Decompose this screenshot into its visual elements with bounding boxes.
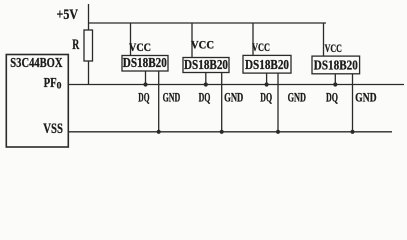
junction dot GND sensor 3 [276,130,280,134]
svg-text:DQ: DQ [326,91,338,105]
wire GND rail from VSS [68,131,392,133]
svg-text:R: R [72,37,79,53]
svg-text:VSS: VSS [43,121,63,137]
svg-text:GND: GND [355,90,377,104]
wire rail to resistor top [88,23,90,30]
wire resistor bottom to DQ bus [88,61,90,85]
svg-text:VCC: VCC [129,42,151,54]
sensor U4 DS18B20 box [243,55,291,73]
wire VCC drop 4 [323,23,325,56]
junction dot GND sensor 4 [350,130,354,134]
wire VCC drop 1 [130,23,132,56]
wire GND pin sensor 2 [221,73,223,132]
sensor U2 DS18B20 box [122,56,168,72]
svg-text:VCC: VCC [325,43,342,55]
svg-text:GND: GND [288,90,306,104]
svg-text:DS18B20: DS18B20 [184,58,228,73]
svg-text:GND: GND [163,90,181,104]
svg-text:DQ: DQ [260,91,272,105]
mcu U1 S3C44BOX box [6,55,68,148]
sensor U3 DS18B20 box [183,58,229,73]
wire DQ pin sensor 2 [205,73,207,85]
wire +5V stub [88,4,90,23]
svg-text:DQ: DQ [199,91,211,105]
wire GND pin sensor 3 [277,73,279,132]
svg-text:DS18B20: DS18B20 [123,56,167,71]
junction dot DQ sensor 1 [143,82,147,86]
junction dot GND sensor 2 [220,130,224,134]
junction dot DQ sensor 2 [204,82,208,86]
wire VCC drop 2 [191,23,193,58]
junction dot DQ sensor 4 [333,82,337,86]
svg-text:0: 0 [57,82,62,92]
resistor R body [84,30,93,61]
wire VCC drop 3 [252,23,254,55]
wire GND pin sensor 1 [158,71,160,132]
wire DQ pin sensor 4 [334,74,336,85]
wire +5V top rail [89,22,327,24]
wire DQ bus from PF0 [68,84,404,86]
junction dot DQ sensor 3 [265,82,269,86]
svg-text:VCC: VCC [191,40,214,52]
svg-text:DS18B20: DS18B20 [314,59,358,74]
svg-text:GND: GND [224,90,243,104]
svg-text:PF: PF [44,75,57,90]
wire DQ pin sensor 1 [145,71,147,85]
sensor U5 DS18B20 box [312,56,360,74]
wire DQ pin sensor 3 [266,73,268,84]
svg-text:S3C44BOX: S3C44BOX [10,56,62,71]
svg-text:DS18B20: DS18B20 [245,58,289,73]
svg-text:DQ: DQ [138,91,149,105]
junction dot GND sensor 1 [157,130,161,134]
wire GND pin sensor 4 [352,74,354,132]
svg-text:VCC: VCC [252,42,270,54]
svg-text:+5V: +5V [57,7,79,23]
